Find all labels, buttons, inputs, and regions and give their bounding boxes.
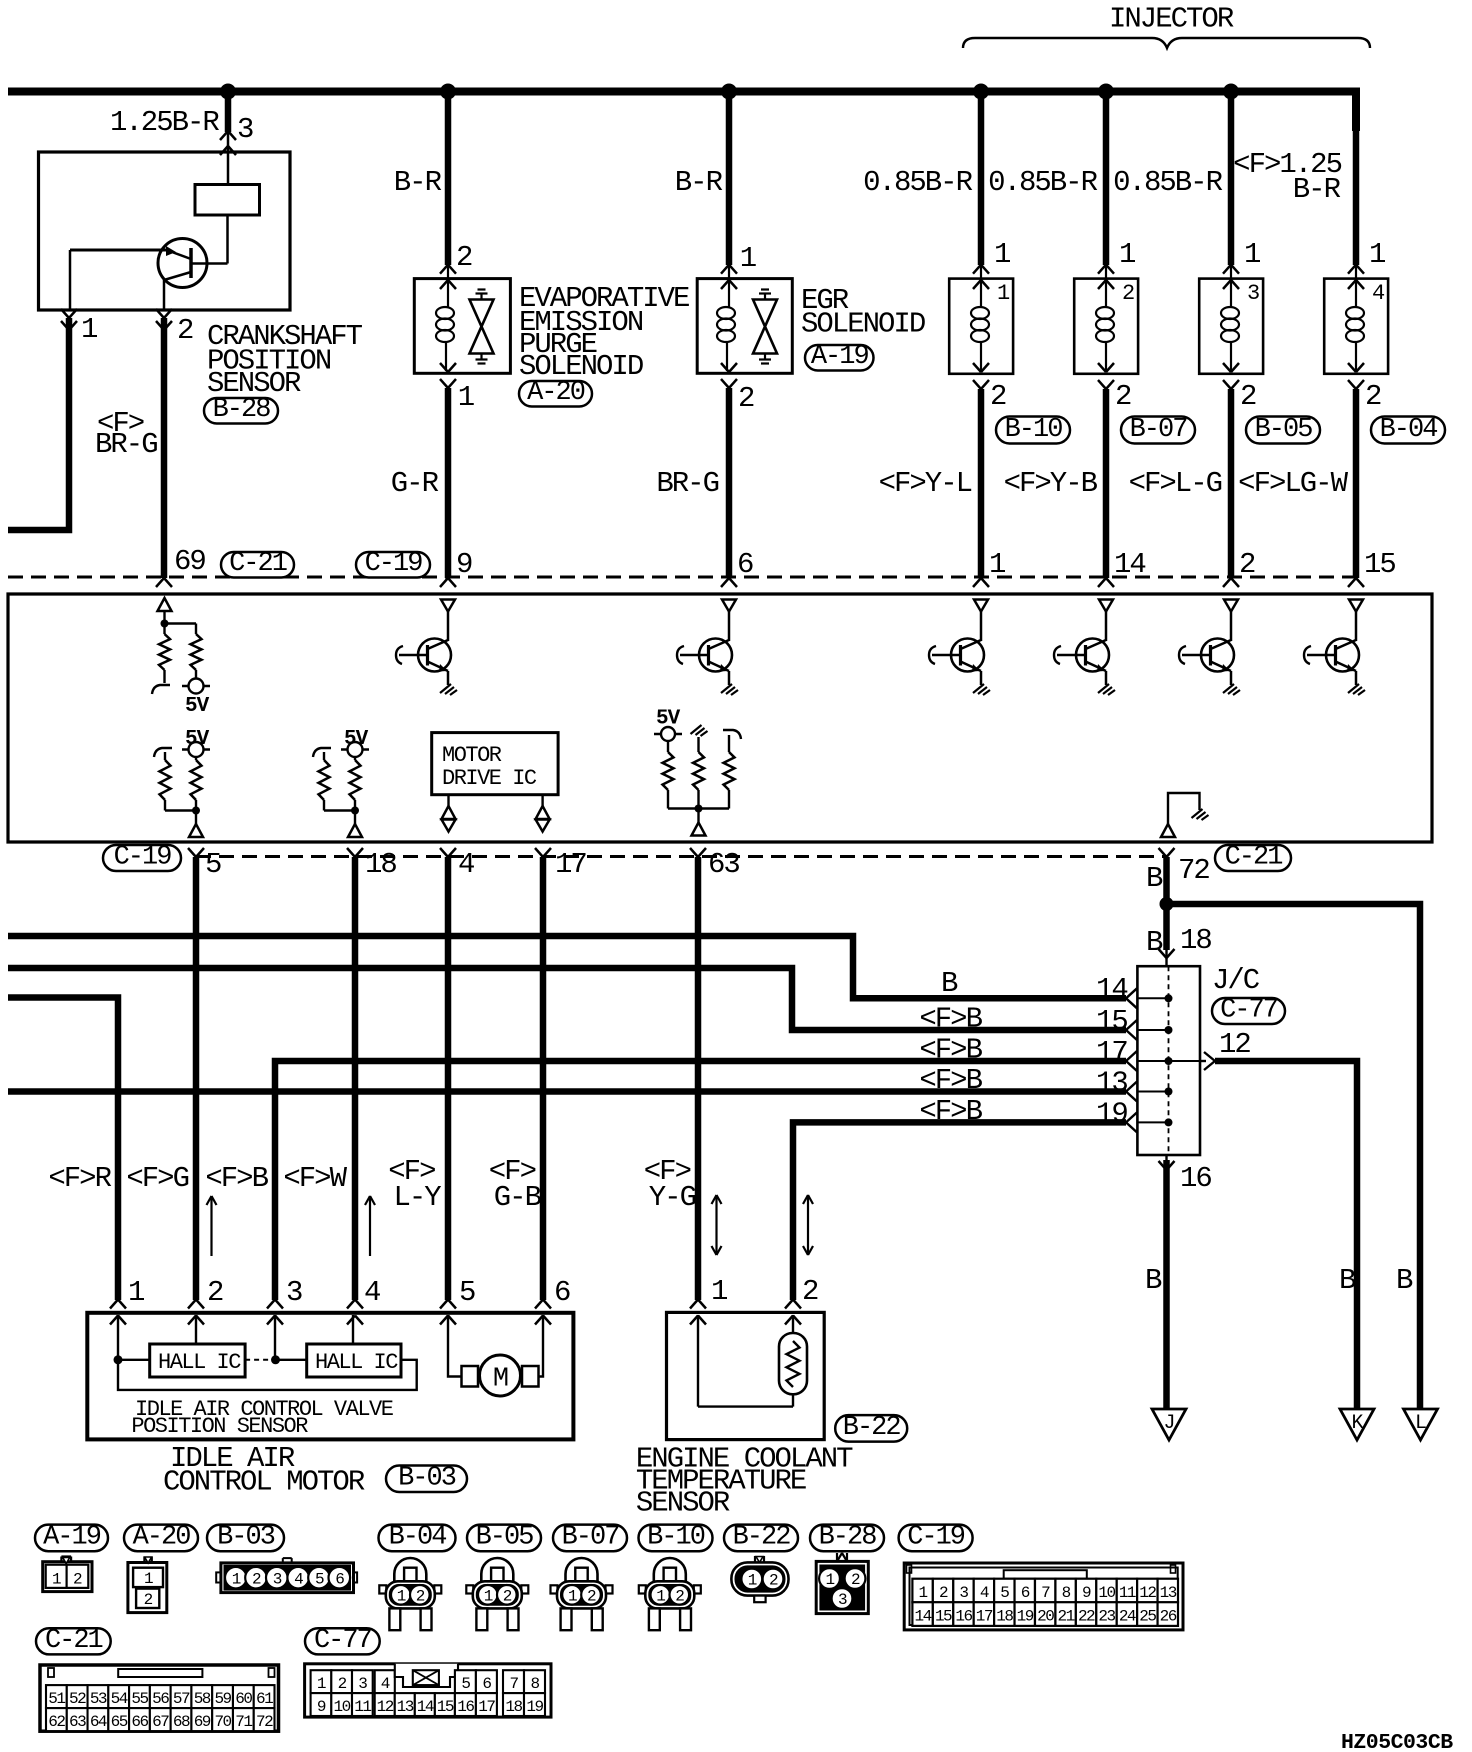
wire B from left to J/C pin 14 bbox=[8, 936, 1126, 998]
connector label B-10 (legend) bbox=[639, 1525, 713, 1552]
wire (F)B from left to J/C pin 15 bbox=[8, 968, 1126, 1030]
svg-text:2: 2 bbox=[939, 1584, 948, 1602]
svg-text:2: 2 bbox=[802, 1275, 818, 1308]
svg-text:1: 1 bbox=[656, 1587, 665, 1605]
connector label B-28 (legend) bbox=[810, 1525, 884, 1552]
wire (F)B coolant sensor pin 2 to J/C pin 19 bbox=[793, 1122, 1126, 1300]
svg-text:1: 1 bbox=[748, 1572, 757, 1590]
pin 18 connector mark bbox=[347, 848, 355, 857]
svg-text:10: 10 bbox=[1098, 1584, 1115, 1602]
svg-text:7: 7 bbox=[509, 1675, 518, 1693]
svg-text:63: 63 bbox=[708, 848, 739, 881]
svg-text:2: 2 bbox=[144, 1591, 153, 1609]
svg-text:1: 1 bbox=[568, 1587, 577, 1605]
connector label B-04 (legend) bbox=[379, 1525, 456, 1552]
svg-text:C-19: C-19 bbox=[114, 843, 172, 873]
svg-text:56: 56 bbox=[152, 1690, 169, 1708]
connector drawing B-07 bbox=[566, 1558, 598, 1582]
svg-text:C-21: C-21 bbox=[1225, 843, 1283, 873]
power bus (battery feed) bbox=[8, 88, 1352, 96]
svg-text:C-77: C-77 bbox=[314, 1626, 372, 1656]
svg-text:12: 12 bbox=[377, 1698, 394, 1716]
wire IAC pin5 to motor bbox=[448, 1315, 462, 1377]
svg-text:3: 3 bbox=[273, 1570, 282, 1588]
svg-text:6: 6 bbox=[554, 1276, 570, 1309]
connector chevrons injector 2 bottom bbox=[1098, 363, 1106, 372]
connector label C-77 (legend) bbox=[305, 1628, 380, 1654]
svg-text:15: 15 bbox=[1364, 548, 1395, 581]
wire IAC pin6 to motor bbox=[539, 1315, 544, 1377]
connector label B-03 bbox=[386, 1466, 467, 1493]
svg-text:5V: 5V bbox=[185, 695, 210, 718]
pin 63 connector mark bbox=[690, 848, 698, 857]
svg-text:4: 4 bbox=[364, 1276, 380, 1309]
svg-text:B-R: B-R bbox=[394, 166, 442, 199]
connector label C-77 bbox=[1212, 998, 1285, 1024]
svg-text:13: 13 bbox=[397, 1698, 414, 1716]
svg-text:14: 14 bbox=[1096, 973, 1127, 1006]
pin 1 connector mark bbox=[973, 578, 981, 587]
hall IC feedback loop wire bbox=[118, 1360, 417, 1390]
svg-text:G-B: G-B bbox=[494, 1181, 542, 1214]
svg-text:1: 1 bbox=[1119, 238, 1135, 271]
svg-text:1: 1 bbox=[81, 313, 97, 346]
injector 2 coil bbox=[1096, 307, 1114, 319]
svg-text:CONTROL MOTOR: CONTROL MOTOR bbox=[163, 1466, 365, 1499]
injector 3 box bbox=[1199, 279, 1263, 374]
svg-text:17: 17 bbox=[478, 1698, 495, 1716]
svg-text:B-05: B-05 bbox=[476, 1523, 534, 1553]
svg-text:A-19: A-19 bbox=[43, 1523, 101, 1553]
node R3/R4 join bbox=[192, 807, 200, 815]
svg-text:3: 3 bbox=[1247, 281, 1259, 306]
svg-text:59: 59 bbox=[214, 1690, 231, 1708]
svg-text:3: 3 bbox=[959, 1584, 968, 1602]
pin 14 connector mark bbox=[1098, 578, 1106, 587]
svg-text:B-03: B-03 bbox=[217, 1523, 275, 1553]
ECU internal terminal triangle pin 5 bbox=[189, 824, 203, 837]
svg-text:2: 2 bbox=[207, 1276, 223, 1309]
svg-text:15: 15 bbox=[1096, 1005, 1127, 1038]
connector chevrons evap bottom bbox=[440, 363, 448, 372]
connector label C-21 (top row) bbox=[221, 552, 294, 578]
svg-text:15: 15 bbox=[437, 1698, 454, 1716]
svg-text:16: 16 bbox=[1180, 1162, 1211, 1195]
svg-text:B-07: B-07 bbox=[1130, 415, 1188, 445]
svg-text:<F>B: <F>B bbox=[919, 1034, 982, 1067]
ECU internal terminal triangle pin 18 bbox=[348, 824, 362, 837]
svg-text:3: 3 bbox=[286, 1276, 302, 1309]
svg-text:<F>B: <F>B bbox=[919, 1064, 982, 1097]
motor M right brush bbox=[522, 1366, 539, 1387]
wire (F)B idle air control pin 3 to J/C pin 17 bbox=[275, 1061, 1126, 1300]
svg-text:4: 4 bbox=[294, 1570, 303, 1588]
svg-text:67: 67 bbox=[152, 1713, 169, 1731]
svg-text:3: 3 bbox=[358, 1675, 367, 1693]
svg-text:0.85B-R: 0.85B-R bbox=[988, 166, 1097, 199]
connector chevrons ECT pin 2 bbox=[785, 1300, 793, 1309]
ground triangle J bbox=[1152, 1409, 1186, 1440]
resistor R7 bbox=[663, 752, 674, 790]
motor drive IC output stub pin 4 bbox=[447, 795, 449, 806]
svg-text:3: 3 bbox=[838, 1591, 847, 1609]
wire ECU pin 5 to IAC pin 2 bbox=[193, 857, 200, 1300]
connector drawing A-20 bbox=[128, 1563, 167, 1613]
wire injector 1 supply bbox=[978, 95, 985, 265]
wire IAC pin2 internal bbox=[195, 1315, 197, 1344]
wire injector 4 supply bbox=[1353, 95, 1360, 265]
svg-text:6: 6 bbox=[335, 1570, 344, 1588]
pickup coil resistor (internal) bbox=[195, 185, 260, 216]
J/C pin 16 wire to ground J bbox=[1165, 1155, 1167, 1160]
svg-text:23: 23 bbox=[1098, 1608, 1115, 1626]
svg-text:SENSOR: SENSOR bbox=[636, 1487, 730, 1520]
direction arrow (IAC pin4) bbox=[369, 1196, 371, 1256]
pin 6 connector mark bbox=[721, 578, 729, 587]
svg-text:24: 24 bbox=[1119, 1608, 1136, 1626]
svg-text:1: 1 bbox=[397, 1587, 406, 1605]
wire injector 1 to ECU pin 1 bbox=[978, 389, 985, 578]
connector chevrons injector 2 top bbox=[1098, 265, 1106, 274]
svg-text:2: 2 bbox=[73, 1571, 82, 1589]
internal wire resistor to transistor collector bbox=[226, 215, 229, 264]
svg-text:6: 6 bbox=[482, 1675, 491, 1693]
junction connector J/C box C-77 bbox=[1137, 966, 1200, 1155]
connector label B-22 bbox=[835, 1415, 907, 1442]
wire ECT pin1 internal bbox=[697, 1315, 699, 1407]
svg-text:B: B bbox=[1339, 1264, 1356, 1297]
svg-text:2: 2 bbox=[503, 1587, 512, 1605]
idle air control motor box B-03 bbox=[87, 1313, 573, 1440]
node (divider junction) bbox=[161, 620, 169, 628]
ECU driver transistor (pin 9) bbox=[441, 600, 455, 612]
svg-text:1.25B-R: 1.25B-R bbox=[110, 106, 219, 139]
bus junction node x=1231 bbox=[1223, 84, 1239, 100]
svg-text:11: 11 bbox=[354, 1698, 371, 1716]
connector chevrons egr bottom bbox=[721, 363, 729, 372]
svg-text:18: 18 bbox=[365, 848, 396, 881]
HALL IC 1 box bbox=[150, 1344, 245, 1377]
svg-text:60: 60 bbox=[235, 1690, 252, 1708]
connector label A-20 bbox=[519, 381, 592, 407]
connector label A-19 bbox=[805, 345, 874, 371]
ECU internal terminal triangle pin 72 bbox=[1161, 824, 1175, 837]
svg-text:17: 17 bbox=[976, 1608, 993, 1626]
svg-text:4: 4 bbox=[1372, 281, 1385, 306]
connector label B-07 bbox=[1121, 417, 1195, 444]
svg-text:72: 72 bbox=[1178, 854, 1209, 887]
svg-text:71: 71 bbox=[235, 1713, 252, 1731]
svg-text:HALL IC: HALL IC bbox=[315, 1350, 398, 1375]
connector drawing C-77 bbox=[305, 1664, 551, 1717]
wire injector 2 to ECU pin 14 bbox=[1103, 389, 1110, 578]
svg-text:B-03: B-03 bbox=[398, 1464, 456, 1494]
svg-text:5V: 5V bbox=[185, 728, 210, 751]
J/C node bbox=[1165, 1118, 1173, 1126]
wire G-R purge solenoid to ECU pin 9 bbox=[445, 388, 452, 578]
wire 1.25B-R from bus to crankshaft position sensor pin 3 bbox=[225, 92, 232, 133]
svg-text:B: B bbox=[1146, 862, 1163, 895]
svg-text:1: 1 bbox=[232, 1570, 241, 1588]
svg-text:B-22: B-22 bbox=[843, 1413, 901, 1443]
engine coolant temperature sensor box B-22 bbox=[667, 1312, 825, 1439]
svg-text:11: 11 bbox=[1119, 1584, 1136, 1602]
connector chevrons injector 3 bottom bbox=[1223, 363, 1231, 372]
ECU connector boundary dashed line (top) bbox=[8, 576, 1356, 579]
svg-text:19: 19 bbox=[1017, 1608, 1034, 1626]
EGR solenoid box A-19 bbox=[697, 279, 792, 374]
svg-text:19: 19 bbox=[526, 1698, 543, 1716]
5V supply (pin18) bbox=[341, 748, 369, 750]
svg-text:26: 26 bbox=[1160, 1608, 1177, 1626]
ECU internal terminal triangle pin 63 bbox=[692, 823, 706, 836]
svg-text:<F>Y-L: <F>Y-L bbox=[879, 467, 972, 500]
svg-text:6: 6 bbox=[1021, 1584, 1030, 1602]
ECU driver transistor (pin 2) bbox=[1224, 600, 1238, 612]
svg-text:2: 2 bbox=[338, 1675, 347, 1693]
svg-text:A-20: A-20 bbox=[527, 378, 585, 408]
connector label B-07 (legend) bbox=[553, 1525, 627, 1552]
pin 9 connector mark bbox=[440, 578, 448, 587]
svg-text:72: 72 bbox=[256, 1713, 273, 1731]
wire ECT internal bottom bbox=[698, 1405, 793, 1407]
svg-text:17: 17 bbox=[555, 848, 586, 881]
svg-text:1: 1 bbox=[825, 1571, 834, 1589]
svg-text:M: M bbox=[493, 1365, 508, 1395]
svg-text:64: 64 bbox=[90, 1713, 107, 1731]
J/C pin arrow bbox=[1126, 988, 1137, 998]
svg-text:B-07: B-07 bbox=[562, 1523, 620, 1553]
connector label B-03 (legend) bbox=[207, 1525, 284, 1552]
injector 1 coil bbox=[971, 307, 989, 319]
wire ECU pin 17 to IAC pin 6 bbox=[540, 857, 547, 1300]
motor M left brush bbox=[462, 1366, 479, 1387]
svg-text:Y-G: Y-G bbox=[649, 1181, 696, 1214]
svg-text:1: 1 bbox=[1244, 238, 1260, 271]
svg-text:18: 18 bbox=[1180, 924, 1211, 957]
connector label B-05 bbox=[1246, 417, 1320, 444]
connector label C-19 (bottom row) bbox=[103, 845, 181, 871]
motor drive IC output stub pin 17 bbox=[541, 795, 543, 806]
resistor R8 bbox=[693, 752, 704, 790]
connector chevrons injector 4 top bbox=[1348, 265, 1356, 274]
resistor R5 bbox=[319, 760, 330, 800]
J/C pin arrow bbox=[1126, 1082, 1137, 1092]
test hook (pin18 group) bbox=[313, 748, 331, 757]
svg-text:70: 70 bbox=[214, 1713, 231, 1731]
svg-text:<F>W: <F>W bbox=[283, 1162, 347, 1195]
svg-text:53: 53 bbox=[90, 1690, 107, 1708]
svg-text:68: 68 bbox=[173, 1713, 190, 1731]
J/C node bbox=[1165, 1088, 1173, 1096]
svg-text:B-10: B-10 bbox=[647, 1523, 705, 1553]
svg-text:<F>B: <F>B bbox=[205, 1162, 268, 1195]
connector drawing B-04 bbox=[394, 1558, 426, 1582]
svg-text:C-19: C-19 bbox=[907, 1523, 965, 1553]
dashed link hall1 to node bbox=[245, 1359, 275, 1361]
injector 4 coil bbox=[1346, 307, 1364, 319]
test hook (pin63 group) bbox=[723, 730, 741, 739]
connector label B-10 bbox=[996, 417, 1070, 444]
connector drawing A-19 bbox=[43, 1562, 92, 1592]
connector drawing B-10 bbox=[654, 1558, 686, 1582]
connector chevrons injector 3 top bbox=[1223, 265, 1231, 274]
injector group brace bbox=[963, 38, 1370, 48]
ECU driver transistor (pin 6) bbox=[722, 600, 736, 612]
svg-text:1: 1 bbox=[994, 238, 1010, 271]
injector 2 box bbox=[1074, 279, 1138, 374]
svg-text:B-05: B-05 bbox=[1255, 415, 1313, 445]
bus junction node x=729 bbox=[721, 84, 737, 100]
svg-text:55: 55 bbox=[131, 1690, 148, 1708]
svg-text:5V: 5V bbox=[344, 728, 369, 751]
svg-text:13: 13 bbox=[1160, 1584, 1177, 1602]
svg-text:69: 69 bbox=[194, 1713, 211, 1731]
svg-text:5: 5 bbox=[459, 1276, 475, 1309]
svg-text:1: 1 bbox=[317, 1675, 326, 1693]
svg-text:14: 14 bbox=[915, 1608, 932, 1626]
svg-text:K: K bbox=[1351, 1412, 1363, 1435]
svg-text:POSITION SENSOR: POSITION SENSOR bbox=[131, 1414, 308, 1439]
injector 3 coil bbox=[1221, 307, 1239, 319]
wire injector 3 supply bbox=[1228, 95, 1235, 265]
svg-text:L: L bbox=[1415, 1412, 1426, 1435]
svg-text:21: 21 bbox=[1058, 1608, 1075, 1626]
svg-text:<F>L-G: <F>L-G bbox=[1129, 467, 1222, 500]
resistor R6 bbox=[350, 760, 361, 800]
svg-text:1: 1 bbox=[997, 281, 1010, 306]
bus junction node x=228 bbox=[220, 84, 236, 100]
svg-text:5: 5 bbox=[205, 848, 221, 881]
direction arrow (ECT pin2) bbox=[807, 1195, 809, 1255]
connector chevrons IAC pin 6 bbox=[535, 1300, 543, 1309]
svg-text:18: 18 bbox=[505, 1698, 522, 1716]
wire bus corner down to injector 4 bbox=[1349, 92, 1356, 132]
J/C pin arrow bbox=[1126, 1112, 1137, 1122]
J/C pin arrow bbox=[1126, 1020, 1137, 1030]
svg-text:L-Y: L-Y bbox=[393, 1181, 441, 1214]
connector label B-05 (legend) bbox=[467, 1525, 541, 1552]
5V supply (pin5) bbox=[182, 748, 210, 750]
resistor R2 (right) bbox=[191, 634, 202, 670]
svg-text:BR-G: BR-G bbox=[656, 467, 718, 500]
svg-text:16: 16 bbox=[955, 1608, 972, 1626]
wire B-R from bus to purge solenoid bbox=[445, 92, 452, 266]
svg-text:5V: 5V bbox=[656, 708, 681, 731]
svg-text:54: 54 bbox=[111, 1690, 128, 1708]
svg-text:2: 2 bbox=[738, 382, 754, 415]
svg-text:25: 25 bbox=[1139, 1608, 1156, 1626]
svg-text:1: 1 bbox=[484, 1587, 493, 1605]
ECU connector boundary dashed line (bottom) bbox=[196, 855, 1166, 858]
pin 72 connector mark bbox=[1159, 848, 1167, 857]
svg-text:2: 2 bbox=[769, 1572, 778, 1590]
connector label B-22 (legend) bbox=[724, 1525, 798, 1552]
svg-text:0.85B-R: 0.85B-R bbox=[863, 166, 972, 199]
svg-text:1: 1 bbox=[919, 1584, 928, 1602]
resistor R1 (left) bbox=[159, 634, 170, 670]
MOTOR DRIVE IC box bbox=[432, 733, 558, 795]
pin 5 connector mark bbox=[188, 848, 196, 857]
thermistor element bbox=[787, 1341, 800, 1387]
test hook (pin5 group) bbox=[154, 748, 172, 757]
svg-text:2: 2 bbox=[1365, 380, 1381, 413]
svg-text:69: 69 bbox=[174, 545, 205, 578]
wire to idle air control motor pin 1 bbox=[8, 998, 118, 1301]
svg-text:17: 17 bbox=[1096, 1036, 1127, 1069]
resistor R4 bbox=[191, 760, 202, 800]
ground (pin72) bbox=[1192, 809, 1203, 818]
svg-text:B-04: B-04 bbox=[1380, 415, 1438, 445]
wire CKP pin 1 to left edge bbox=[8, 318, 69, 530]
bus junction node x=1106 bbox=[1098, 84, 1114, 100]
node R5/R6 join bbox=[351, 807, 359, 815]
resistor R3 bbox=[160, 760, 171, 800]
svg-text:1: 1 bbox=[1369, 238, 1385, 271]
svg-text:INJECTOR: INJECTOR bbox=[1109, 3, 1234, 36]
pin 2 connector mark bbox=[1223, 578, 1231, 587]
svg-text:9: 9 bbox=[317, 1698, 326, 1716]
J/C node bbox=[1165, 1057, 1173, 1065]
wire (F)B from left to J/C pin 13 bbox=[8, 1088, 1126, 1095]
connector label B-04 bbox=[1371, 417, 1445, 444]
J/C pin arrow bbox=[1126, 1051, 1137, 1061]
svg-text:1: 1 bbox=[458, 381, 474, 414]
direction arrow (ECT pin1) bbox=[715, 1195, 717, 1255]
svg-text:62: 62 bbox=[48, 1713, 65, 1731]
svg-text:B-28: B-28 bbox=[819, 1523, 877, 1553]
svg-text:BR-G: BR-G bbox=[95, 428, 157, 461]
connector drawing C-19 bbox=[904, 1563, 1183, 1630]
connector chevrons egr top bbox=[721, 265, 729, 274]
svg-text:2: 2 bbox=[1115, 380, 1131, 413]
svg-text:B-10: B-10 bbox=[1005, 415, 1063, 445]
EGR solenoid coil bbox=[717, 307, 735, 319]
ECU driver transistor (pin 14) bbox=[1099, 600, 1113, 612]
svg-text:2: 2 bbox=[1122, 281, 1134, 306]
svg-text:<F>B: <F>B bbox=[919, 1095, 982, 1128]
svg-text:58: 58 bbox=[194, 1690, 211, 1708]
evaporative emission purge solenoid box A-20 bbox=[414, 279, 510, 374]
ECU internal terminal triangle pin 69 bbox=[158, 598, 172, 611]
transistor Q1 bar bbox=[189, 248, 193, 278]
wire ECU pin 4 to IAC pin 5 bbox=[445, 857, 452, 1300]
node (ground junction B) bbox=[1160, 897, 1174, 911]
wire injector 3 to ECU pin 2 bbox=[1228, 389, 1235, 578]
pin 4 connector mark bbox=[440, 848, 448, 857]
connector chevrons injector 1 bottom bbox=[973, 363, 981, 372]
ECU internal ground wire pin 72 bbox=[1168, 793, 1200, 824]
wire IAC pin4 internal bbox=[352, 1315, 354, 1344]
ECU box bbox=[8, 594, 1432, 842]
svg-text:7: 7 bbox=[1041, 1584, 1050, 1602]
node R7/R8/R9 join bbox=[695, 805, 703, 813]
wire CKP pin 2 down to ECU pin 69 bbox=[161, 318, 168, 578]
test hook bbox=[152, 685, 170, 694]
svg-text:52: 52 bbox=[69, 1690, 86, 1708]
svg-text:2: 2 bbox=[675, 1587, 684, 1605]
connector label B-28 bbox=[204, 398, 278, 424]
svg-text:5: 5 bbox=[1000, 1584, 1009, 1602]
crankshaft position sensor box B-28 bbox=[39, 152, 291, 310]
transistor Q1 emitter wire bbox=[164, 272, 191, 280]
connector chevrons IAC pin 1 bbox=[110, 1300, 118, 1309]
svg-text:B: B bbox=[1396, 1264, 1413, 1297]
svg-text:2: 2 bbox=[1240, 380, 1256, 413]
svg-text:SOLENOID: SOLENOID bbox=[801, 308, 925, 341]
svg-text:J: J bbox=[1163, 1412, 1174, 1435]
svg-text:2: 2 bbox=[851, 1571, 860, 1589]
